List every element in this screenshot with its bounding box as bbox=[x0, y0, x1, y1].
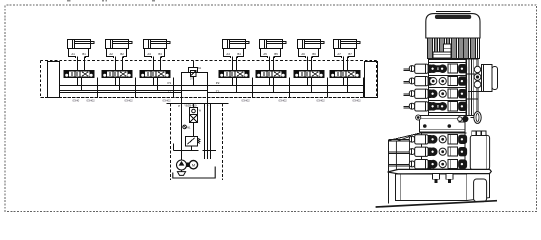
svg-text:M: M bbox=[192, 163, 195, 167]
lower stack valve row 2 bbox=[389, 147, 467, 156]
L1 drain bus line bbox=[59, 92, 182, 94]
wire cylinder 2 port B to valve bbox=[122, 57, 124, 71]
pump bbox=[177, 160, 187, 170]
drain header wire bbox=[174, 150, 199, 152]
wire cylinder 5 port B to valve bbox=[273, 57, 275, 71]
cropped caption remnants bbox=[67, 0, 155, 2]
svg-text:B7: B7 bbox=[348, 52, 352, 56]
wire cylinder 1 port A to valve bbox=[77, 57, 79, 71]
solenoid directional valve V1 bbox=[64, 71, 94, 78]
lower stack valve row 3 bbox=[389, 160, 467, 169]
wire cylinder 6 port A to valve bbox=[307, 57, 309, 71]
manifold right end plate bbox=[365, 62, 378, 98]
wire cylinder 7 port B to valve bbox=[347, 57, 349, 71]
P2 bus line bbox=[208, 85, 365, 87]
tank bbox=[173, 167, 215, 179]
wire relief valve drain bbox=[191, 146, 193, 151]
lower stack valve row 1 bbox=[389, 135, 467, 144]
upper manifold backing plate bbox=[428, 59, 466, 116]
wire valve V1 T port to T bus bbox=[81, 78, 83, 91]
svg-text:03H0: 03H0 bbox=[73, 99, 80, 103]
upper stack valve row 4 bbox=[404, 102, 467, 111]
svg-text:03H02: 03H02 bbox=[163, 99, 172, 103]
wire P riser bbox=[181, 104, 183, 161]
ground shadow line bbox=[376, 201, 497, 207]
wire valve V4 P port to P bus bbox=[232, 78, 234, 86]
wire valve V3 drain to tank gallery bbox=[173, 78, 175, 98]
tank body bbox=[396, 174, 490, 201]
wire filter to relief feed bbox=[181, 151, 183, 161]
svg-text:B1: B1 bbox=[82, 52, 86, 56]
wire YA drain riser bbox=[207, 104, 209, 160]
wire check valve to P riser bbox=[193, 104, 195, 108]
solenoid directional valve V6 bbox=[294, 71, 324, 78]
wire cylinder 6 port B to valve bbox=[311, 57, 313, 71]
wire T riser bbox=[204, 104, 206, 160]
upper stack valve row 3 bbox=[404, 89, 467, 98]
shaft coupling bbox=[187, 163, 190, 167]
wire cylinder 3 port B to valve bbox=[160, 57, 162, 71]
gauge port on mid block bbox=[416, 115, 421, 120]
upper stack row divider lines bbox=[429, 63, 466, 113]
cylinder 2 bbox=[106, 40, 133, 49]
solenoid directional valve V4 bbox=[219, 71, 249, 78]
wire YA to P gallery bbox=[193, 77, 195, 86]
svg-text:03H02: 03H02 bbox=[125, 99, 134, 103]
lower stack mounting plate edge bbox=[389, 133, 422, 141]
drain collector wire bbox=[203, 150, 217, 152]
bus lines through pump box bbox=[182, 85, 208, 87]
wire valve V4 T port to T bus bbox=[236, 78, 238, 93]
svg-text:W: W bbox=[199, 110, 202, 112]
wire valve V2 T port to T bus bbox=[119, 78, 121, 91]
cylinder 5 mounting yoke bbox=[261, 49, 281, 59]
upper stack valve row 1 bbox=[404, 64, 467, 73]
power unit illustration: electric motor fan cover bbox=[426, 12, 480, 39]
wire cylinder 5 port A to valve bbox=[269, 57, 271, 71]
wire cylinder 3 port A to valve bbox=[153, 57, 155, 71]
solenoid directional valve V7 bbox=[330, 71, 360, 78]
manifold block (dashed outline) bbox=[41, 61, 377, 98]
T1 bus line bbox=[59, 90, 182, 92]
wire cylinder 4 port B to valve bbox=[236, 57, 238, 71]
wire valve V2 P port to P bus bbox=[115, 78, 117, 86]
lower stack row divider lines bbox=[422, 134, 465, 170]
cylinder 4 mounting yoke bbox=[224, 49, 244, 59]
solenoid unloading valve YA bbox=[189, 68, 198, 77]
wire filter down bbox=[193, 123, 195, 137]
oil filler / breather box bbox=[470, 131, 489, 169]
pressure gauge port M1 bbox=[183, 125, 191, 129]
wire valve V6 drain to tank gallery bbox=[327, 78, 329, 98]
svg-text:B2: B2 bbox=[120, 52, 124, 56]
svg-text:A6: A6 bbox=[301, 52, 305, 56]
svg-text:03H02: 03H02 bbox=[242, 99, 251, 103]
svg-text:P: P bbox=[178, 104, 180, 108]
upper stack valve row 2 bbox=[404, 77, 467, 86]
wire valve V4 drain to tank gallery bbox=[252, 78, 254, 98]
manifold left end plate bbox=[48, 62, 60, 98]
mid manifold block bbox=[419, 116, 465, 132]
svg-text:A1: A1 bbox=[71, 52, 75, 56]
motor M bbox=[189, 161, 197, 169]
lower stack left side plate bbox=[396, 137, 409, 170]
check valve bbox=[190, 108, 198, 115]
cylinder 7 bbox=[334, 40, 361, 49]
pump sub-block outline bbox=[182, 73, 208, 104]
solenoid directional valve V2 bbox=[102, 71, 132, 78]
relief valve with handwheel bbox=[458, 112, 482, 124]
cylinder 6 bbox=[298, 40, 325, 49]
svg-text:T2: T2 bbox=[216, 89, 220, 93]
cylinder 2 mounting yoke bbox=[107, 49, 127, 59]
filter bbox=[190, 115, 198, 123]
manifold drain caps bbox=[432, 174, 453, 183]
svg-text:A4: A4 bbox=[226, 52, 230, 56]
svg-text:A7: A7 bbox=[337, 52, 341, 56]
cylinder 6 mounting yoke bbox=[299, 49, 319, 59]
wire valve V3 P port to P bus bbox=[153, 78, 155, 86]
wire valve V5 P port to P bus bbox=[269, 78, 271, 86]
wire valve V2 drain to tank gallery bbox=[135, 78, 137, 98]
electric motor finned body bbox=[428, 38, 480, 59]
cylinder 5 bbox=[260, 40, 287, 49]
wire YA to top gallery bbox=[193, 61, 195, 68]
cylinder 3 mounting yoke bbox=[145, 49, 165, 59]
wire relief drain riser bbox=[210, 104, 212, 160]
tank top plate bbox=[388, 169, 492, 173]
solenoid directional valve V5 bbox=[256, 71, 286, 78]
svg-text:YA: YA bbox=[197, 66, 201, 70]
pump unit dashed enclosure bbox=[171, 104, 223, 181]
T2 bus line bbox=[208, 92, 365, 94]
svg-text:A5: A5 bbox=[263, 52, 267, 56]
P1 bus line bbox=[59, 85, 182, 87]
svg-text:B4: B4 bbox=[237, 52, 241, 56]
side solenoid valve on column bbox=[468, 65, 498, 92]
wire valve V1 P port to P bus bbox=[77, 78, 79, 86]
svg-text:B5: B5 bbox=[274, 52, 278, 56]
svg-text:A3: A3 bbox=[147, 52, 151, 56]
wire cylinder 1 port B to valve bbox=[84, 57, 86, 71]
svg-text:M1: M1 bbox=[187, 126, 191, 129]
suction strainer bbox=[177, 172, 185, 176]
relief valve bbox=[186, 137, 201, 147]
cylinder 1 bbox=[68, 40, 95, 49]
svg-text:B6: B6 bbox=[312, 52, 316, 56]
cylinder 3 bbox=[144, 40, 171, 49]
wire valve V7 P port to P bus bbox=[343, 78, 345, 86]
svg-text:P1: P1 bbox=[168, 81, 172, 85]
cylinder 1 mounting yoke bbox=[69, 49, 89, 59]
wire drain header stub bbox=[173, 144, 175, 151]
wire valve V3 T port to T bus bbox=[157, 78, 159, 91]
svg-text:P2: P2 bbox=[216, 81, 220, 85]
svg-text:03H02: 03H02 bbox=[87, 99, 96, 103]
wire cylinder 4 port A to valve bbox=[232, 57, 234, 71]
cylinder 7 mounting yoke bbox=[335, 49, 355, 59]
svg-text:03H02: 03H02 bbox=[279, 99, 288, 103]
wire valve V6 T port to T bus bbox=[311, 78, 313, 93]
wire pump suction bbox=[181, 170, 183, 172]
return filter canister bbox=[474, 179, 487, 202]
lower stack support rail bbox=[388, 140, 390, 204]
wire valve V7 T port to T bus bbox=[347, 78, 349, 93]
wire cylinder 7 port A to valve bbox=[343, 57, 345, 71]
svg-text:A2: A2 bbox=[109, 52, 113, 56]
svg-text:B3: B3 bbox=[158, 52, 162, 56]
pump unit top plate bbox=[167, 103, 229, 105]
lower manifold backing plate bbox=[421, 133, 465, 170]
solenoid directional valve V3 bbox=[140, 71, 170, 78]
cylinder 4 bbox=[223, 40, 250, 49]
wire valve V5 drain to tank gallery bbox=[289, 78, 291, 98]
manifold riser column bbox=[464, 59, 478, 116]
svg-text:03H02: 03H02 bbox=[353, 99, 362, 103]
wire valve V6 P port to P bus bbox=[307, 78, 309, 86]
svg-text:03H02: 03H02 bbox=[317, 99, 326, 103]
wire valve V1 drain to tank gallery bbox=[97, 78, 99, 98]
wire valve V5 T port to T bus bbox=[273, 78, 275, 93]
wire cylinder 2 port A to valve bbox=[115, 57, 117, 71]
wire valve V7 drain to tank gallery bbox=[363, 78, 365, 98]
svg-text:T1: T1 bbox=[168, 89, 172, 93]
